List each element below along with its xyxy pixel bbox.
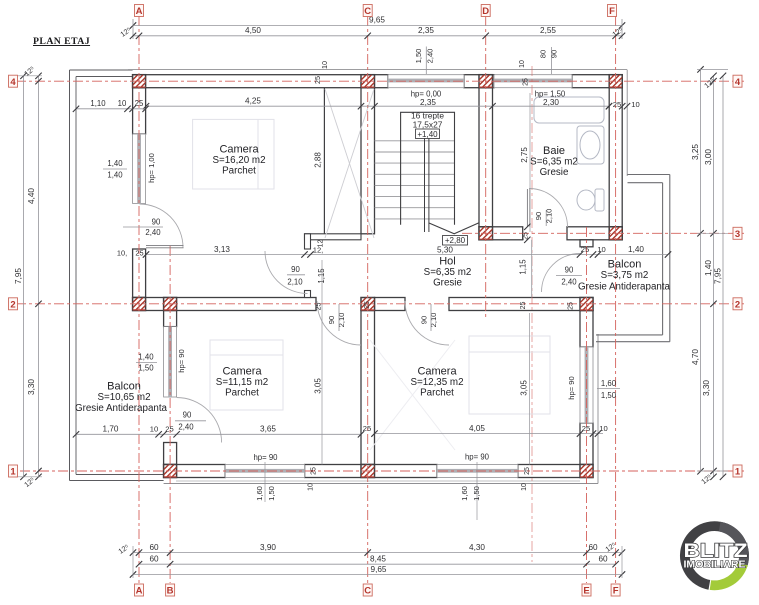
balcony 3,75 parapet — [596, 175, 670, 342]
window balcony B (hp=90) — [164, 327, 177, 397]
axis label D — [481, 5, 490, 18]
svg-text:3,65: 3,65 — [260, 425, 276, 434]
svg-text:90: 90 — [183, 410, 192, 419]
svg-text:60: 60 — [598, 555, 608, 564]
dim 4,25 / 2,35 / 2,30 — [146, 105, 609, 107]
svg-text:S=12,35 m2: S=12,35 m2 — [410, 377, 463, 388]
svg-text:10: 10 — [597, 245, 605, 254]
svg-text:25: 25 — [613, 100, 621, 109]
balcony 10,65 parapet west — [70, 70, 133, 481]
svg-text:12: 12 — [318, 240, 325, 248]
svg-text:1: 1 — [10, 467, 16, 478]
svg-text:4,40: 4,40 — [27, 188, 36, 204]
door baie arc — [529, 189, 568, 228]
svg-text:S=6,35 m2: S=6,35 m2 — [530, 157, 578, 168]
svg-text:80: 80 — [539, 50, 548, 58]
pier B2 — [151, 298, 185, 311]
svg-text:10: 10 — [308, 483, 315, 491]
stair direction arrow V — [429, 223, 479, 234]
svg-text:10: 10 — [150, 425, 158, 434]
svg-text:D: D — [482, 6, 489, 17]
svg-text:2,35: 2,35 — [420, 98, 436, 107]
svg-text:hp= 1,50: hp= 1,50 — [535, 90, 566, 99]
svg-text:3,25: 3,25 — [691, 144, 700, 160]
pier C2 — [348, 298, 382, 311]
svg-text:25: 25 — [581, 245, 589, 254]
svg-text:hp= 0,00: hp= 0,00 — [411, 90, 442, 99]
axis 1 line — [20, 470, 744, 472]
svg-text:Camera: Camera — [219, 144, 259, 156]
wall C lower — [361, 311, 375, 465]
svg-text:C: C — [364, 586, 371, 597]
svg-text:Gresie Antiderapanta: Gresie Antiderapanta — [75, 403, 168, 414]
svg-text:90: 90 — [550, 50, 559, 58]
pier F3 — [596, 227, 630, 240]
svg-text:Camera: Camera — [222, 366, 262, 378]
dim 2,75 baie — [529, 93, 531, 232]
dim 1,10 10 25 — [76, 108, 146, 110]
door hol-camera16 arc — [265, 251, 308, 294]
axis label 2 — [9, 298, 18, 311]
window bottom left (hp=90) — [225, 465, 304, 478]
wall north between windows — [464, 75, 494, 88]
dim window baie (80/90) — [551, 47, 553, 74]
svg-text:3,90: 3,90 — [260, 543, 276, 552]
svg-text:1,50: 1,50 — [601, 391, 617, 400]
pier D3 — [466, 227, 500, 240]
dim right 3,25/4,70 — [700, 69, 702, 471]
svg-text:1,50: 1,50 — [138, 364, 154, 373]
axis label C — [363, 584, 372, 597]
svg-text:1,70: 1,70 — [103, 425, 119, 434]
wall B lower stub — [164, 443, 177, 465]
toilet — [577, 189, 604, 211]
pier E2 — [567, 298, 601, 311]
svg-text:25: 25 — [568, 302, 575, 310]
axis 4 line — [16, 80, 744, 82]
window stair north — [388, 75, 464, 88]
svg-text:3,30: 3,30 — [27, 379, 36, 395]
insulation line east lower — [597, 334, 599, 484]
svg-text:1,40: 1,40 — [107, 159, 123, 168]
axis label 1 — [733, 465, 742, 478]
axis label 1 — [9, 465, 18, 478]
svg-text:3,13: 3,13 — [214, 245, 230, 254]
svg-text:1,50: 1,50 — [414, 49, 423, 64]
svg-text:4,25: 4,25 — [245, 97, 261, 106]
dim 4,05 — [375, 433, 604, 435]
svg-text:hp= 90: hp= 90 — [177, 349, 186, 372]
dim 9,65 top — [133, 25, 622, 27]
dim chain bottom 2 — [139, 563, 616, 565]
wall west lower — [133, 249, 146, 298]
dim window west 1,40/1,40 — [103, 168, 127, 170]
dim door balcon3 90/2,40 — [556, 275, 582, 277]
pier A4 — [120, 75, 154, 88]
svg-text:A: A — [136, 586, 143, 597]
axis E line — [586, 227, 588, 583]
dim door hol-c16 90/2,10 — [287, 274, 305, 276]
bathtub — [534, 97, 604, 123]
axis label A — [135, 584, 144, 597]
svg-text:25: 25 — [524, 467, 531, 475]
svg-text:90: 90 — [565, 266, 574, 275]
svg-text:10: 10 — [519, 60, 526, 68]
dim 3,13 / 12 / 5,30 / 25 / 10 / 1,40 — [146, 254, 668, 256]
bed camera 11,15 — [210, 340, 283, 410]
svg-text:3,00: 3,00 — [704, 149, 713, 165]
svg-text:17,5x27: 17,5x27 — [413, 120, 443, 130]
svg-text:60: 60 — [588, 543, 598, 552]
svg-text:2,10: 2,10 — [337, 313, 346, 328]
pier F4 — [596, 75, 630, 88]
svg-text:25: 25 — [311, 467, 318, 475]
svg-text:25: 25 — [135, 249, 143, 258]
svg-text:PLAN ETAJ: PLAN ETAJ — [33, 36, 90, 47]
svg-text:10: 10 — [631, 100, 639, 109]
window axis line (baie) — [531, 66, 533, 562]
room label balcon 10,65 — [97, 381, 150, 404]
dim 3,05 line — [529, 313, 531, 465]
svg-text:10: 10 — [320, 61, 329, 69]
axis label 2 — [733, 298, 742, 311]
stair level +2,80 — [443, 236, 468, 246]
svg-text:1,60: 1,60 — [601, 379, 617, 388]
room label balcon 3,75 — [601, 259, 649, 282]
door balconyB arc — [177, 398, 222, 443]
stair level +1,40 — [416, 129, 440, 139]
svg-text:2,88: 2,88 — [314, 152, 323, 168]
sink — [577, 126, 604, 164]
axis 2 line — [16, 303, 744, 305]
svg-text:25: 25 — [520, 302, 527, 310]
svg-text:Camera: Camera — [417, 366, 457, 378]
pier A2 — [120, 298, 154, 311]
door camera11 arc — [317, 301, 361, 345]
svg-text:C: C — [364, 6, 371, 17]
svg-text:2: 2 — [735, 299, 740, 310]
balcony 10,65 parapet south — [70, 475, 164, 481]
svg-text:25: 25 — [582, 424, 590, 433]
partition jamb lower — [305, 291, 311, 298]
svg-text:hp= 90: hp= 90 — [253, 453, 278, 462]
window baie north — [494, 75, 572, 88]
axis 3 line — [462, 232, 744, 234]
stair flight box — [401, 112, 455, 225]
wall stair west C upper — [361, 88, 375, 234]
svg-text:4,50: 4,50 — [245, 26, 261, 35]
wall B upper stub — [164, 311, 177, 327]
svg-text:25: 25 — [165, 425, 173, 434]
svg-text:25: 25 — [316, 303, 323, 311]
svg-text:1,15: 1,15 — [317, 268, 326, 284]
wall bottom left — [164, 465, 226, 478]
svg-text:Hol: Hol — [439, 256, 456, 268]
svg-text:F: F — [613, 586, 619, 597]
wall E stub — [580, 240, 593, 247]
svg-text:E: E — [583, 586, 589, 597]
svg-text:2,40: 2,40 — [561, 278, 577, 287]
wall axis2 left — [133, 298, 316, 311]
room label camera 12,35 — [410, 366, 463, 399]
svg-text:S=10,65 m2: S=10,65 m2 — [97, 392, 150, 403]
door west balcony (90/2,40) arc — [140, 204, 184, 248]
dim balconyB door 90/2,40 — [175, 420, 206, 422]
pier B1 — [151, 465, 185, 478]
pier C1 — [348, 465, 382, 478]
wall E upper — [580, 311, 593, 348]
dim right chain — [713, 76, 715, 477]
svg-text:2,40: 2,40 — [145, 228, 161, 237]
wall axis2 right — [449, 298, 593, 311]
svg-text:2: 2 — [10, 299, 15, 310]
svg-text:2,30: 2,30 — [543, 98, 559, 107]
room label camera 16,20 — [212, 144, 265, 177]
wall E lower — [580, 423, 593, 465]
axis label A — [135, 5, 144, 18]
wardrobe X camera 12,35 (faint) — [370, 340, 455, 450]
dim right 7,95 — [722, 76, 724, 477]
window bottom right (hp=90) — [437, 465, 518, 478]
svg-text:3,05: 3,05 — [314, 378, 323, 394]
svg-text:90: 90 — [420, 316, 429, 324]
wall axis2 mid — [375, 298, 406, 311]
wall west upper — [133, 88, 146, 134]
insulation line east upper — [626, 70, 628, 176]
svg-text:Parchet: Parchet — [225, 388, 259, 399]
dim balconyB window 1,40/1,50 — [136, 362, 157, 364]
svg-text:3,30: 3,30 — [702, 380, 711, 396]
axis label 4 — [733, 75, 742, 88]
svg-text:8,45: 8,45 — [370, 555, 386, 564]
window east (hp=90) — [580, 347, 593, 423]
svg-text:60: 60 — [149, 555, 159, 564]
axis label F — [608, 5, 617, 18]
svg-text:F: F — [609, 6, 615, 17]
svg-text:1,50: 1,50 — [267, 486, 276, 501]
door balcony3 arc — [542, 254, 581, 293]
svg-text:10,: 10, — [117, 249, 127, 258]
door baie leaf — [526, 189, 528, 227]
svg-text:25: 25 — [523, 78, 530, 86]
axis label B — [166, 584, 175, 597]
wall north right of baie window — [572, 75, 622, 88]
svg-text:1,15: 1,15 — [519, 259, 528, 275]
axis label 4 — [9, 75, 18, 88]
wall east F — [609, 88, 622, 227]
svg-text:90: 90 — [327, 316, 336, 324]
svg-text:hp= 90: hp= 90 — [465, 453, 490, 462]
dim door west 90/2,40 — [123, 226, 163, 228]
svg-text:10: 10 — [599, 424, 607, 433]
svg-text:S=16,20 m2: S=16,20 m2 — [212, 155, 265, 166]
room label hol — [424, 256, 472, 289]
insulation line north — [128, 69, 627, 71]
wall axis3 right — [567, 227, 622, 240]
sill line south — [176, 480, 580, 482]
svg-text:5,30: 5,30 — [437, 246, 453, 255]
svg-text:2,55: 2,55 — [540, 26, 556, 35]
svg-text:1,40: 1,40 — [704, 260, 713, 276]
room label baie — [530, 145, 578, 178]
bed camera 16,20 — [193, 119, 274, 189]
door camera12 arc — [405, 301, 449, 345]
svg-text:1: 1 — [735, 467, 741, 478]
svg-text:Balcon: Balcon — [608, 259, 642, 271]
axis B line — [169, 246, 171, 583]
axis label C — [363, 5, 372, 18]
svg-text:Gresie: Gresie — [433, 278, 462, 289]
svg-text:90: 90 — [534, 212, 543, 220]
svg-text:1,50: 1,50 — [472, 486, 481, 501]
svg-text:9,65: 9,65 — [371, 565, 387, 574]
svg-text:2,40: 2,40 — [426, 49, 435, 64]
stair treads — [375, 141, 455, 219]
wall bottom right — [518, 465, 593, 478]
svg-text:S=3,75 m2: S=3,75 m2 — [601, 270, 649, 281]
svg-text:1,40: 1,40 — [628, 245, 644, 254]
svg-text:25: 25 — [364, 301, 371, 309]
svg-text:10: 10 — [521, 483, 528, 491]
svg-text:Gresie Antiderapanta: Gresie Antiderapanta — [578, 281, 671, 292]
axis C line — [367, 16, 369, 583]
bed camera 12,35 — [469, 336, 550, 414]
svg-text:7,95: 7,95 — [714, 268, 723, 284]
svg-text:2,10: 2,10 — [287, 277, 303, 286]
partition hol north (12cm) — [305, 234, 362, 240]
svg-text:2,35: 2,35 — [418, 26, 434, 35]
wall north A-to-stair-window — [133, 75, 388, 88]
svg-text:A: A — [136, 6, 143, 17]
svg-text:2,10: 2,10 — [429, 313, 438, 328]
window west (hp=1,00) — [133, 134, 146, 204]
svg-text:4: 4 — [10, 77, 16, 88]
svg-text:Gresie: Gresie — [540, 167, 569, 178]
dim window stair (1,50/2,40) — [425, 47, 427, 75]
svg-text:90: 90 — [152, 218, 161, 227]
dim 1,70 10 25 3,65 — [76, 433, 361, 435]
svg-text:+2,80: +2,80 — [445, 236, 466, 245]
pier E1 — [567, 465, 601, 478]
svg-text:7,95: 7,95 — [14, 268, 23, 284]
shaft west line — [323, 88, 325, 234]
partition jamb upper — [305, 234, 311, 249]
dim 9,65 bottom — [133, 574, 622, 576]
axis A line — [138, 16, 140, 583]
svg-text:3,05: 3,05 — [520, 380, 529, 396]
svg-text:60: 60 — [149, 543, 159, 552]
room label camera 11,15 — [216, 366, 268, 399]
svg-text:S=11,15 m2: S=11,15 m2 — [216, 377, 268, 388]
door west leaf — [146, 245, 184, 247]
pier C4 — [348, 75, 382, 88]
wall bottom mid — [305, 465, 437, 478]
svg-text:Parchet: Parchet — [420, 388, 454, 399]
svg-text:25: 25 — [135, 99, 144, 108]
axis F line — [615, 16, 617, 583]
logo blitz imobiliare — [680, 521, 749, 590]
shaft X hatch — [325, 89, 374, 238]
svg-text:10: 10 — [118, 99, 127, 108]
insulation line south — [164, 483, 598, 485]
axis label F — [611, 584, 620, 597]
dim chain top — [133, 35, 622, 37]
svg-text:2,40: 2,40 — [178, 422, 194, 431]
stair divider — [425, 138, 429, 232]
dim 7,95 left — [23, 76, 25, 477]
svg-text:+1,40: +1,40 — [417, 130, 438, 139]
wall axis3 left — [479, 227, 523, 240]
pier D4 — [466, 75, 500, 88]
svg-text:hp= 1,00: hp= 1,00 — [147, 153, 156, 183]
svg-text:IMOBILIARE: IMOBILIARE — [684, 560, 746, 571]
svg-text:3: 3 — [735, 229, 740, 240]
svg-text:Balcon: Balcon — [107, 381, 141, 393]
svg-text:4,30: 4,30 — [469, 543, 485, 552]
svg-text:hp= 90: hp= 90 — [567, 376, 576, 399]
axis label 3 — [733, 227, 742, 240]
svg-text:S=6,35 m2: S=6,35 m2 — [424, 267, 472, 278]
dim window east 1,60/1,50 — [597, 388, 620, 390]
svg-text:B: B — [167, 586, 174, 597]
axis D line — [485, 16, 487, 318]
svg-text:25: 25 — [313, 76, 322, 84]
svg-text:1,10: 1,10 — [90, 99, 106, 108]
svg-text:4,70: 4,70 — [691, 349, 700, 365]
svg-text:Baie: Baie — [543, 145, 565, 157]
dim chain left — [38, 76, 40, 477]
svg-text:4,05: 4,05 — [469, 424, 485, 433]
svg-text:1,40: 1,40 — [107, 171, 123, 180]
svg-text:1,60: 1,60 — [255, 486, 264, 501]
svg-text:25: 25 — [363, 424, 371, 433]
svg-text:90: 90 — [291, 265, 300, 274]
svg-text:4: 4 — [735, 77, 741, 88]
svg-text:1,40: 1,40 — [138, 353, 154, 362]
dim chain bottom 1 — [133, 552, 622, 554]
wall stair east D — [479, 88, 493, 227]
svg-text:1,60: 1,60 — [460, 486, 469, 501]
axis label E — [582, 584, 591, 597]
svg-text:Parchet: Parchet — [222, 166, 256, 177]
svg-text:2,75: 2,75 — [520, 147, 529, 163]
